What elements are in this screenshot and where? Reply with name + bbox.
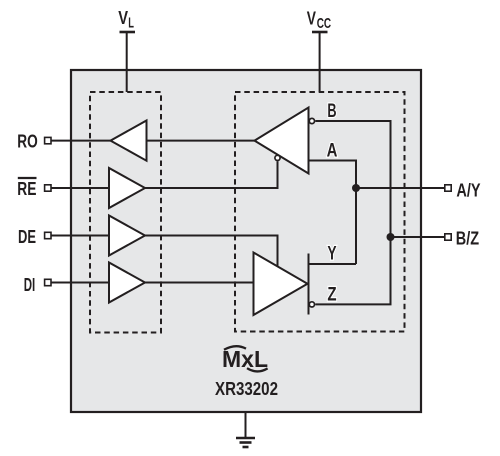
buffer RO (points left)	[111, 121, 147, 161]
pin A/Y	[356, 181, 481, 201]
pin DE	[18, 227, 109, 247]
svg-text:RE: RE	[17, 179, 36, 199]
svg-text:A: A	[327, 139, 338, 161]
wire DE buffer to driver enable	[145, 236, 278, 267]
svg-text:A/Y: A/Y	[456, 181, 480, 201]
ground	[236, 412, 255, 447]
wire B	[315, 121, 390, 237]
buffer DE (points right)	[109, 216, 145, 256]
bus-side dashed block	[235, 92, 405, 332]
svg-text:V: V	[118, 8, 128, 28]
wire Z	[315, 237, 390, 304]
svg-text:Z: Z	[327, 284, 337, 305]
buffer DI (points right)	[109, 263, 145, 303]
svg-text:L: L	[128, 14, 134, 31]
IC body XR33202	[71, 70, 421, 412]
wire DI buffer to driver input	[145, 282, 254, 284]
svg-text:B: B	[327, 100, 336, 122]
svg-text:XR33202: XR33202	[215, 378, 278, 399]
pin B/Z	[391, 229, 480, 249]
svg-text:RO: RO	[17, 131, 38, 151]
MxL logo	[222, 346, 268, 372]
svg-text:DI: DI	[24, 275, 36, 295]
pin RO	[17, 131, 110, 151]
wire A	[309, 161, 357, 265]
receiver U-RX (points left)	[255, 108, 309, 174]
svg-text:DE: DE	[18, 227, 36, 247]
power pin VCC	[307, 8, 332, 92]
svg-text:CC: CC	[317, 15, 332, 32]
junction node B/Z	[387, 233, 395, 241]
pin DI	[24, 275, 109, 295]
wire Y	[309, 263, 357, 265]
power pin VL	[118, 8, 135, 92]
wire RO buffer to receiver	[147, 140, 255, 142]
svg-text:MxL: MxL	[222, 346, 268, 372]
logic-side dashed block	[90, 92, 161, 333]
inverting bubble on B input	[309, 118, 314, 123]
pin RE (active low)	[17, 178, 109, 199]
enable bubble on receiver	[275, 155, 280, 160]
driver output bar	[308, 254, 310, 315]
svg-text:Y: Y	[327, 243, 336, 265]
svg-text:V: V	[307, 8, 316, 28]
junction node A/Y	[352, 184, 360, 192]
svg-text:B/Z: B/Z	[456, 229, 479, 249]
driver U-TX (points right)	[254, 253, 308, 316]
inverting bubble on Z output	[309, 302, 314, 307]
buffer RE (points right)	[109, 168, 145, 208]
wire RE buffer to receiver enable	[145, 161, 278, 188]
